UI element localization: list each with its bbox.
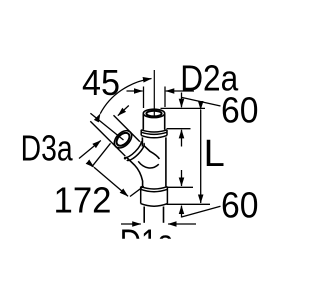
lower 60 leader: [182, 206, 221, 217]
branch pipe (rotated 45deg): [109, 126, 146, 163]
upper 60 down arrow: [181, 93, 183, 108]
D2a left arrow: [127, 90, 143, 92]
pipe bottom section left side: [143, 207, 145, 223]
branch upper silhouette + extension: [114, 115, 140, 141]
branch axis extension line: [90, 113, 123, 140]
svg-text:60: 60: [221, 184, 259, 225]
svg-text:L: L: [204, 133, 225, 175]
upper 60 up arrow: [181, 130, 183, 147]
upper 60 extension line A: [161, 107, 206, 109]
D1a left arrow: [121, 223, 141, 225]
main pipe top opening inner ellipse: [146, 111, 161, 117]
upper 60 leader: [182, 97, 221, 106]
svg-text:D3a: D3a: [21, 127, 74, 168]
45 degree arc with arrowheads: [100, 79, 151, 114]
branch diameter upper arrow: [118, 106, 129, 116]
upper 60 extension line B: [167, 128, 191, 130]
svg-text:60: 60: [221, 89, 259, 130]
main pipe upper body right side: [164, 114, 166, 130]
branch opening outer ellipse: [111, 127, 135, 151]
lower 60 extension line C: [167, 186, 194, 188]
pipe bottom section right side: [163, 207, 165, 223]
branch bead outer arc: [127, 143, 147, 163]
main pipe mid body right side: [165, 137, 167, 186]
svg-text:45: 45: [82, 62, 120, 103]
svg-text:D1a: D1a: [120, 222, 175, 263]
main pipe top opening outer ellipse: [143, 109, 164, 117]
upper collar bead: [141, 130, 167, 132]
lower 60 up arrow: [181, 206, 183, 218]
172 lower extension line: [130, 186, 144, 196]
lower collar bead: [141, 187, 168, 189]
main pipe upper body left side: [142, 114, 144, 130]
172 dimension line with arrowheads: [94, 167, 128, 196]
lower 60 extension line D: [167, 203, 211, 205]
svg-text:172: 172: [54, 179, 112, 220]
D2a right arrow: [166, 90, 194, 92]
D3a leader arrow: [79, 141, 101, 159]
L dimension line with both arrowheads: [200, 110, 202, 203]
branch lower edge after bead into pipe: [126, 157, 142, 187]
branch bead end curl: [123, 156, 127, 160]
label D1a clipped at bottom: [120, 222, 175, 263]
D1a right arrow: [168, 223, 196, 225]
branch opening inner ellipse: [114, 130, 132, 148]
branch upper edge after bead into junction: [144, 146, 159, 159]
branch lower silhouette extension line: [90, 121, 125, 156]
main pipe mid body left side: [141, 137, 143, 146]
saddle seam curve: [138, 161, 159, 168]
D2a left extension line: [143, 87, 145, 109]
main pipe centerline: [153, 70, 155, 116]
D2a right extension line: [164, 87, 166, 108]
branch bead inner arc: [125, 141, 143, 159]
lower 60 down arrow: [181, 170, 183, 186]
172 upper extension line: [92, 143, 111, 167]
